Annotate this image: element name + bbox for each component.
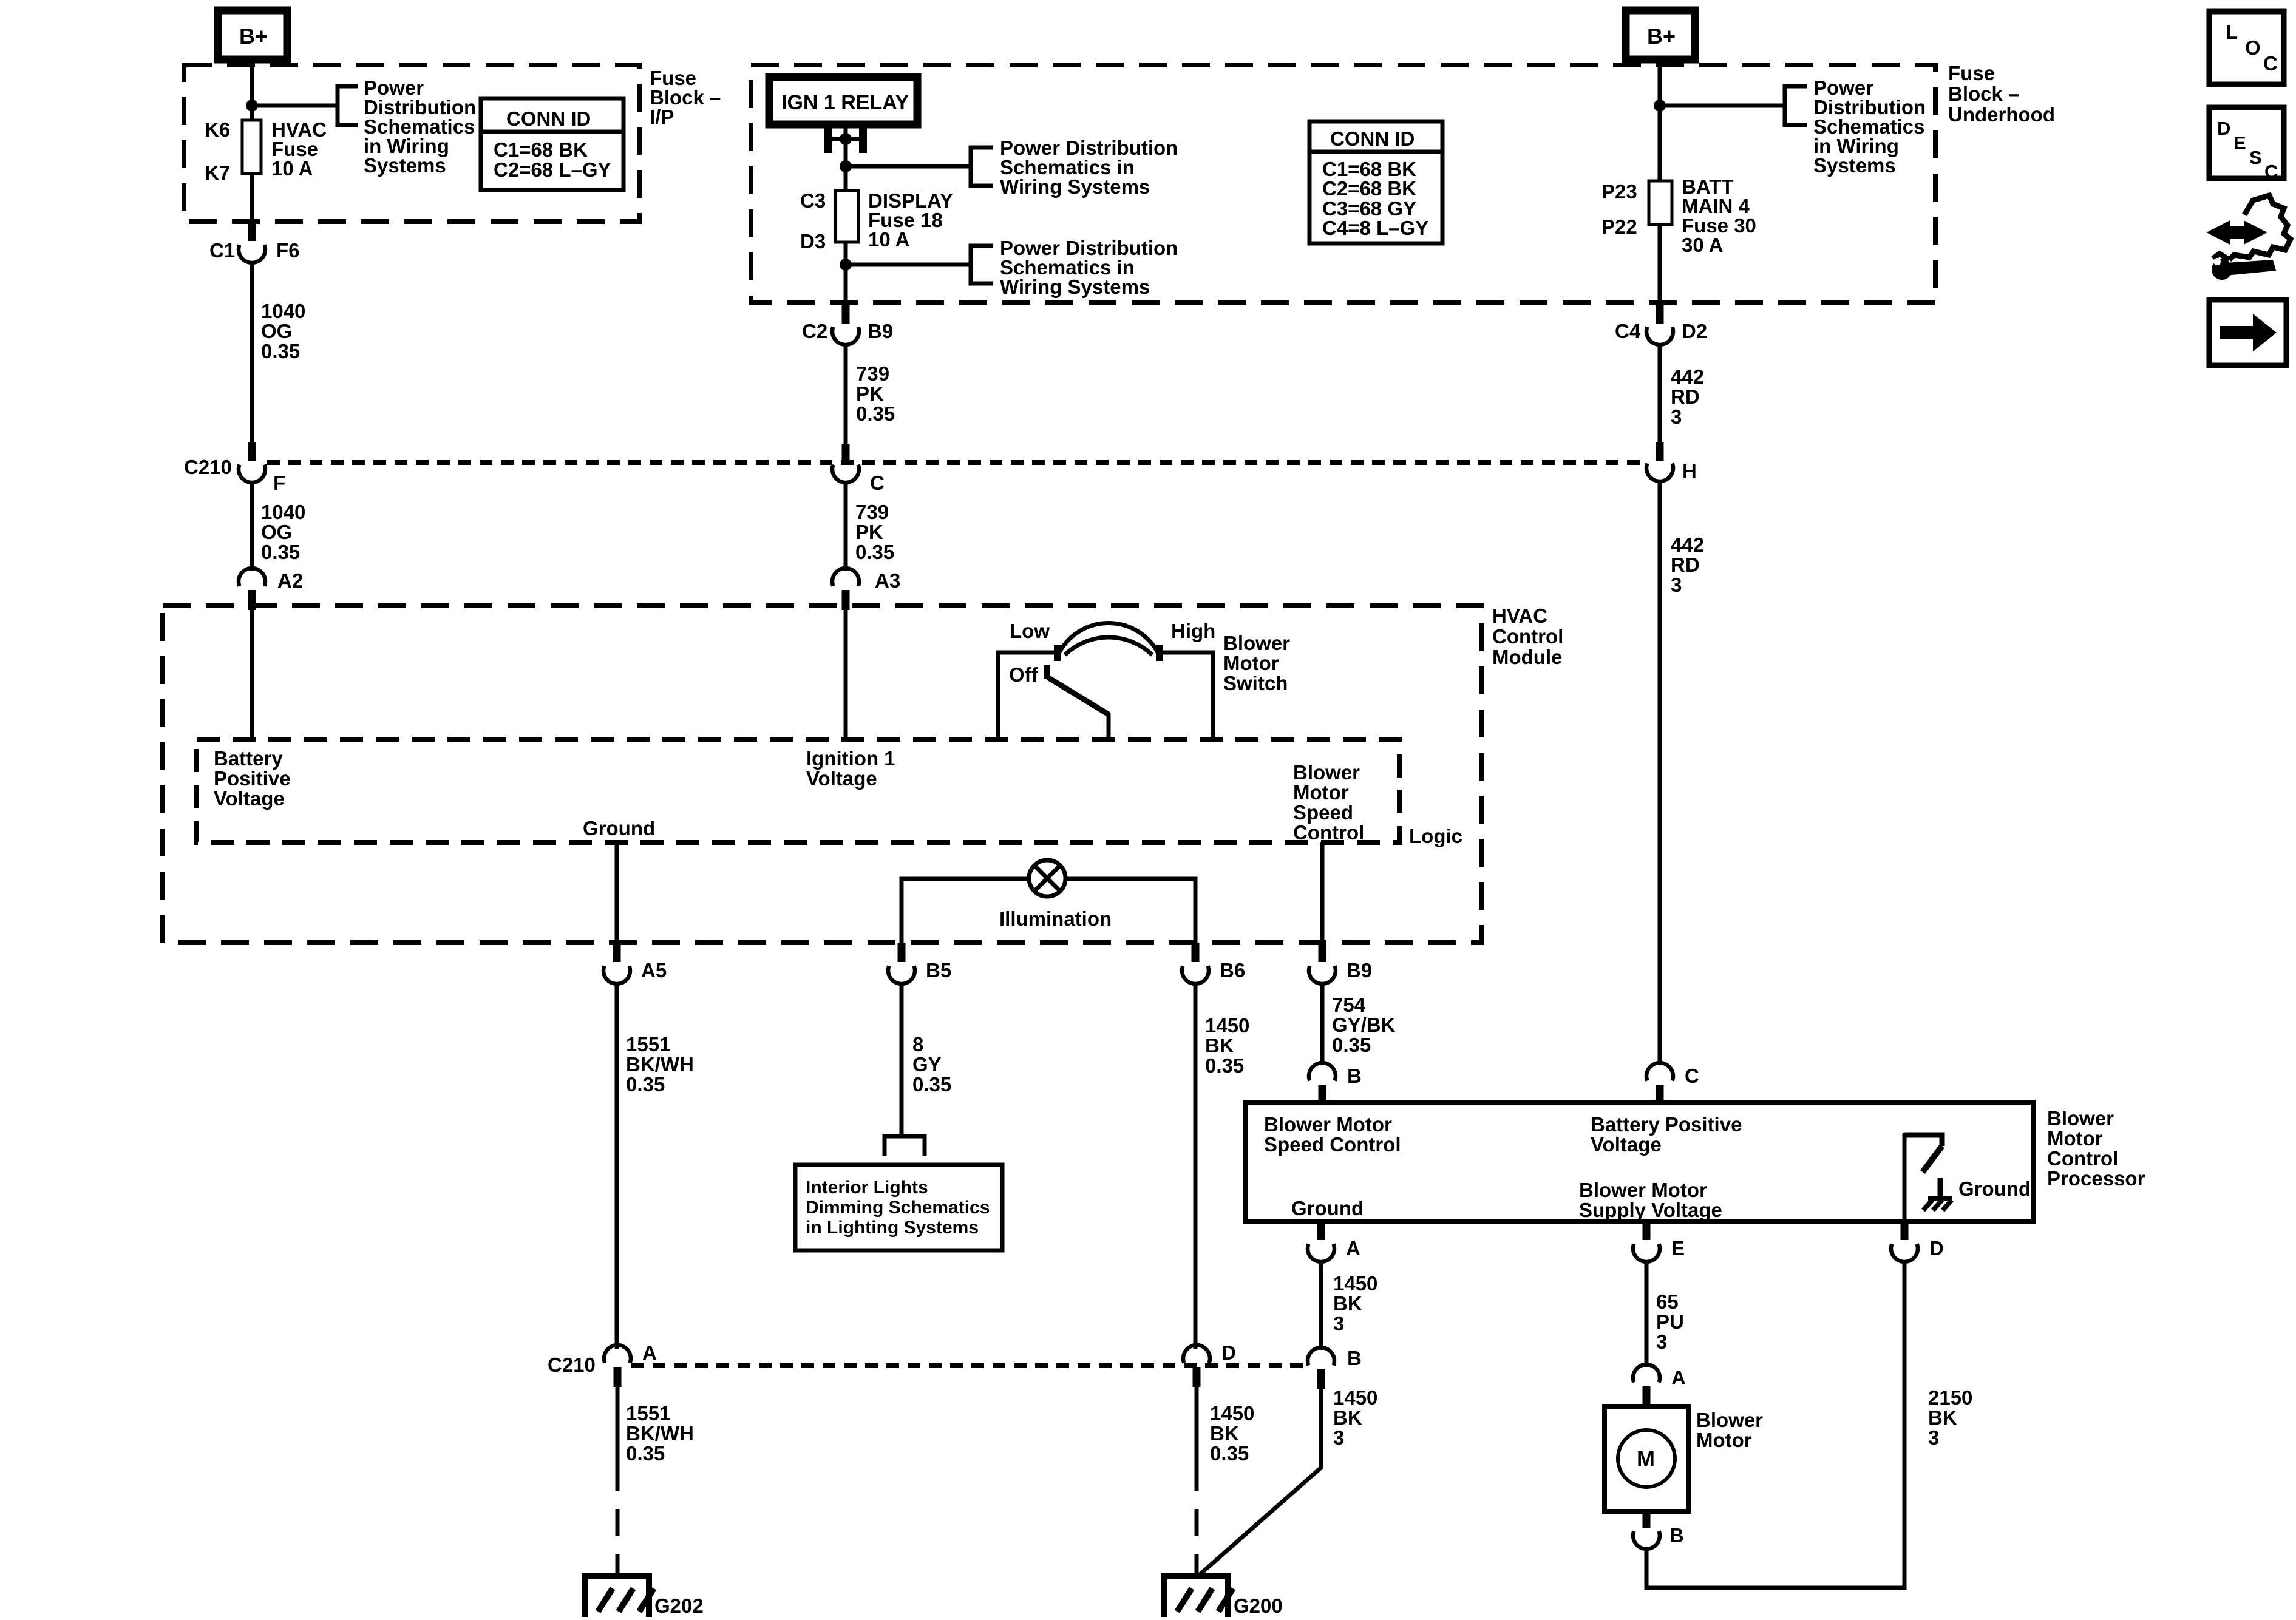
svg-text:BK: BK	[1333, 1292, 1362, 1315]
wire C210 C to A3 (739 PK)	[844, 483, 848, 571]
wire blower motor B to D pin (2150 BK 3)	[1646, 1260, 1904, 1588]
relay IGN 1 RELAY	[769, 77, 917, 124]
svg-text:Blower: Blower	[1223, 632, 1290, 654]
svg-text:Illumination: Illumination	[999, 907, 1112, 930]
note bracket (left fuse block)	[338, 86, 358, 125]
note box Interior Lights Dimming Schematics in Lighting Systems	[795, 1165, 1002, 1250]
svg-text:Control: Control	[1293, 821, 1364, 844]
svg-text:3: 3	[1928, 1426, 1939, 1449]
svg-text:Dimming Schematics: Dimming Schematics	[806, 1198, 990, 1218]
svg-text:442: 442	[1671, 534, 1704, 556]
wire pin A3 into module	[844, 610, 848, 739]
svg-text:1450: 1450	[1205, 1014, 1249, 1037]
svg-text:30 A: 30 A	[1682, 234, 1723, 256]
wire label 1040 OG 0.35 (lower)	[261, 501, 305, 563]
wire fuse to connector C1	[250, 174, 254, 223]
svg-text:D: D	[1221, 1341, 1236, 1364]
wire C210 D to G200 (dashed)	[1195, 1387, 1199, 1464]
wire B5 down (8 GY)	[900, 982, 904, 1135]
inline harness connector C210 dashed line (upper)	[267, 460, 1645, 465]
lamp illumination wire right	[1064, 879, 1195, 947]
svg-text:739: 739	[855, 501, 889, 523]
svg-text:F6: F6	[276, 239, 300, 262]
svg-text:C210: C210	[184, 456, 232, 478]
svg-text:Voltage: Voltage	[1591, 1133, 1662, 1156]
svg-text:G202: G202	[654, 1595, 704, 1617]
wire C4 to C210 H (442 RD)	[1658, 344, 1662, 445]
svg-text:B9: B9	[1347, 959, 1372, 981]
wire label 1040 OG 0.35 (upper)	[261, 300, 305, 362]
svg-text:65: 65	[1656, 1290, 1679, 1313]
svg-text:B6: B6	[1220, 959, 1245, 981]
svg-text:Speed: Speed	[1293, 801, 1353, 824]
svg-text:1450: 1450	[1333, 1272, 1377, 1295]
wire A pin to connector B (1450 BK 3)	[1319, 1260, 1323, 1350]
node junction below DISPLAY fuse	[840, 259, 852, 271]
note bracket (right fuse block)	[1785, 86, 1807, 125]
svg-text:S: S	[2249, 147, 2262, 168]
ground G200	[1164, 1576, 1283, 1617]
connector C4 D2	[1615, 305, 1707, 345]
connector pin B6	[1182, 943, 1245, 984]
svg-text:Logic: Logic	[1409, 825, 1462, 847]
svg-text:B: B	[1347, 1347, 1362, 1369]
svg-text:Ignition 1: Ignition 1	[806, 747, 895, 770]
svg-text:PK: PK	[855, 521, 883, 543]
svg-text:BK: BK	[1210, 1422, 1239, 1445]
connector C210 F	[184, 442, 285, 494]
svg-text:GY/BK: GY/BK	[1332, 1014, 1396, 1036]
svg-text:D: D	[1929, 1237, 1944, 1259]
wire label 1450 BK 0.35 (upper)	[1205, 1014, 1249, 1077]
svg-text:CONN ID: CONN ID	[1330, 127, 1415, 150]
module HVAC Control Module dashed box	[163, 606, 1481, 943]
svg-text:Wiring Systems: Wiring Systems	[1000, 175, 1150, 198]
svg-text:Fuse: Fuse	[1948, 62, 1995, 84]
lamp illumination wire left	[902, 879, 1030, 947]
svg-text:Motor: Motor	[1223, 652, 1279, 674]
connector pin B9	[1309, 943, 1372, 984]
svg-text:2150: 2150	[1928, 1386, 1972, 1409]
wire ground pin to A5	[615, 841, 619, 947]
svg-text:K7: K7	[205, 161, 230, 184]
svg-text:Module: Module	[1492, 646, 1562, 668]
svg-text:Ground: Ground	[583, 817, 655, 839]
svg-text:RD: RD	[1671, 554, 1700, 576]
svg-text:754: 754	[1332, 994, 1366, 1016]
connector pin A3	[832, 568, 900, 610]
fuse DISPLAY Fuse 18 10 A	[835, 191, 858, 242]
svg-text:0.35: 0.35	[1332, 1034, 1371, 1056]
inline harness connector C210 dashed line (lower)	[631, 1363, 1306, 1368]
svg-text:C210: C210	[548, 1354, 596, 1376]
svg-text:0.35: 0.35	[261, 340, 300, 362]
wire label 1551 BK/WH 0.35 (lower)	[626, 1402, 694, 1465]
svg-text:A: A	[1671, 1366, 1686, 1389]
svg-text:OG: OG	[261, 521, 292, 543]
wire C2 to C210 (739 PK)	[844, 344, 848, 445]
wire B9 down (754 GY/BK)	[1320, 982, 1325, 1065]
pin label Battery Positive Voltage (processor)	[1591, 1113, 1742, 1156]
wire junction to note bracket (lower middle)	[846, 263, 971, 267]
connector C210 A	[604, 1341, 657, 1387]
svg-text:BK/WH: BK/WH	[626, 1053, 694, 1076]
wire junction to note bracket (left)	[252, 104, 338, 108]
svg-text:C: C	[2264, 161, 2278, 182]
note bracket (lower middle)	[971, 246, 993, 283]
connector C2 B9	[802, 305, 893, 345]
svg-text:D: D	[2217, 118, 2230, 139]
svg-text:A2: A2	[277, 569, 303, 592]
svg-text:Processor: Processor	[2047, 1167, 2145, 1190]
wire label 739 PK 0.35 (upper)	[856, 362, 895, 425]
svg-text:0.35: 0.35	[626, 1442, 665, 1465]
svg-text:C1=68 BK: C1=68 BK	[494, 138, 588, 161]
svg-text:3: 3	[1333, 1426, 1344, 1449]
connector C210 C	[832, 444, 885, 494]
svg-text:B: B	[1347, 1065, 1362, 1087]
switch wiper	[1044, 665, 1109, 739]
svg-text:C4=8 L–GY: C4=8 L–GY	[1322, 217, 1428, 239]
svg-text:Low: Low	[1010, 620, 1050, 642]
wire C210 F to A2 (1040 OG)	[250, 483, 254, 571]
svg-text:Blower: Blower	[1696, 1409, 1763, 1431]
svg-text:Interior Lights: Interior Lights	[806, 1178, 928, 1198]
label Blower Motor Control Processor	[2047, 1107, 2145, 1190]
wire label 65 PU 3	[1656, 1290, 1684, 1353]
wire BATT fuse to C4	[1658, 225, 1662, 303]
svg-text:C2=68 L–GY: C2=68 L–GY	[494, 158, 611, 181]
fuse BATT MAIN 4 Fuse 30 30 A	[1649, 181, 1672, 225]
relay output terminal symbol	[824, 128, 867, 153]
svg-text:E: E	[2233, 132, 2246, 154]
value label HVAC Fuse 10 A	[271, 118, 327, 180]
svg-text:3: 3	[1671, 405, 1682, 428]
svg-text:0.35: 0.35	[856, 402, 895, 425]
svg-text:Speed Control: Speed Control	[1264, 1133, 1401, 1156]
wire B+ right down to BATT fuse	[1658, 59, 1662, 181]
svg-text:Switch: Switch	[1223, 672, 1288, 694]
connector C210 H	[1646, 442, 1697, 483]
wire label 1450 BK 3 (below B)	[1333, 1386, 1377, 1449]
connector pin C (processor top)	[1646, 1063, 1699, 1102]
ground G202	[585, 1576, 704, 1617]
label HVAC Control Module	[1492, 605, 1563, 668]
svg-text:C3: C3	[800, 189, 826, 212]
svg-text:Systems: Systems	[364, 154, 446, 177]
connector pin B5	[888, 943, 951, 984]
value label BATT MAIN 4 Fuse 30 30 A	[1682, 175, 1756, 256]
svg-text:C: C	[2263, 52, 2278, 75]
svg-text:M: M	[1637, 1446, 1655, 1471]
value label DISPLAY Fuse 18 10 A	[868, 189, 953, 251]
connector C210 D	[1183, 1341, 1236, 1387]
connector pin D (processor bottom)	[1891, 1221, 1944, 1262]
svg-text:C4: C4	[1615, 320, 1641, 342]
switch frame right	[1161, 652, 1213, 739]
switch blower motor switch frame left	[998, 652, 1056, 739]
svg-text:CONN ID: CONN ID	[506, 107, 591, 130]
note text Power Distribution Schematics in Wiring Systems (upper middle)	[1000, 137, 1178, 198]
svg-text:1551: 1551	[626, 1402, 670, 1425]
note bracket to interior lights box	[885, 1136, 925, 1156]
connector pin E (processor bottom)	[1633, 1221, 1685, 1262]
svg-text:Battery Positive: Battery Positive	[1591, 1113, 1742, 1136]
svg-text:8: 8	[912, 1033, 923, 1056]
svg-text:HVAC: HVAC	[1492, 605, 1547, 627]
internal ground symbol (processor)	[1904, 1133, 2031, 1221]
wire label 442 RD 3 (lower)	[1671, 534, 1704, 596]
node junction at right B+ feed	[1654, 100, 1666, 112]
pin label Blower Motor Speed Control (processor)	[1264, 1113, 1401, 1156]
note text Power Distribution Schematics in Wiring Systems (right)	[1813, 76, 1926, 177]
svg-text:RD: RD	[1671, 385, 1700, 408]
svg-text:P22: P22	[1601, 215, 1637, 238]
icon schematic navigation (arrows and wrench)	[2210, 195, 2291, 280]
svg-text:0.35: 0.35	[1205, 1054, 1244, 1077]
svg-text:3: 3	[1333, 1312, 1344, 1335]
icon DESC box	[2209, 107, 2284, 182]
svg-text:Blower Motor: Blower Motor	[1579, 1179, 1707, 1201]
svg-text:1551: 1551	[626, 1033, 670, 1056]
wire C1 to C210 (1040 OG)	[250, 261, 254, 445]
svg-text:L: L	[2226, 21, 2238, 43]
svg-text:A: A	[1346, 1237, 1360, 1259]
svg-text:0.35: 0.35	[855, 541, 894, 563]
svg-text:BK: BK	[1205, 1034, 1234, 1057]
svg-text:Voltage: Voltage	[806, 767, 877, 790]
svg-text:Control: Control	[1492, 625, 1563, 648]
wire label 1450 BK 3 (A pin)	[1333, 1272, 1377, 1335]
label Blower Motor	[1696, 1409, 1763, 1451]
svg-text:Blower Motor: Blower Motor	[1264, 1113, 1392, 1136]
svg-text:PU: PU	[1656, 1310, 1684, 1333]
svg-text:B+: B+	[1647, 24, 1676, 49]
svg-text:F: F	[273, 472, 285, 494]
svg-text:Wiring Systems: Wiring Systems	[1000, 276, 1150, 298]
fuse block underhood dashed box	[751, 65, 1935, 303]
svg-text:Ground: Ground	[1291, 1197, 1364, 1219]
svg-text:1040: 1040	[261, 501, 305, 523]
icon LOC box	[2209, 12, 2284, 84]
svg-text:Control: Control	[2047, 1147, 2118, 1170]
switch rotary arc	[1058, 623, 1160, 656]
svg-text:Battery: Battery	[214, 747, 283, 770]
svg-text:Block –: Block –	[1948, 83, 2019, 105]
svg-text:G200: G200	[1234, 1595, 1283, 1617]
svg-text:PK: PK	[856, 382, 884, 405]
svg-text:0.35: 0.35	[626, 1073, 665, 1096]
wire C210 H down to processor pin C (442 RD)	[1658, 481, 1662, 1065]
wire junction to note bracket (right)	[1660, 104, 1785, 108]
connector pin B (blower motor)	[1633, 1511, 1684, 1549]
svg-text:C1: C1	[209, 239, 235, 262]
svg-text:BK: BK	[1333, 1406, 1362, 1429]
wire label 2150 BK 3	[1928, 1386, 1972, 1449]
fuse HVAC Fuse 10 A	[242, 120, 261, 174]
svg-text:10 A: 10 A	[868, 228, 909, 251]
svg-text:442: 442	[1671, 365, 1704, 388]
connector pin B (processor top)	[1309, 1063, 1362, 1102]
note bracket (upper middle)	[971, 147, 993, 186]
lamp illumination	[1029, 860, 1065, 896]
pin label Blower Motor Supply Voltage (processor)	[1579, 1179, 1722, 1221]
connector pin A (blower motor)	[1633, 1364, 1686, 1406]
wire pin A2 into module	[250, 610, 254, 739]
node junction at left B+ feed	[246, 100, 258, 112]
connector pin A5	[603, 943, 667, 984]
svg-text:O: O	[2245, 36, 2261, 59]
svg-text:E: E	[1671, 1237, 1685, 1259]
svg-text:Ground: Ground	[1958, 1178, 2031, 1200]
svg-text:H: H	[1682, 460, 1697, 483]
svg-text:10 A: 10 A	[271, 157, 313, 180]
pin label Ignition 1 Voltage	[806, 747, 895, 790]
wire label 754 GY/BK 0.35	[1332, 994, 1396, 1056]
svg-text:739: 739	[856, 362, 889, 385]
pin label Battery Positive Voltage	[214, 747, 291, 810]
svg-text:BK: BK	[1928, 1406, 1957, 1429]
svg-text:Underhood: Underhood	[1948, 103, 2055, 126]
svg-text:Blower: Blower	[2047, 1107, 2114, 1130]
switch arc end caps	[1054, 645, 1061, 661]
svg-text:I/P: I/P	[650, 106, 674, 128]
note text Power Distribution Schematics in Wiring Systems (lower middle)	[1000, 237, 1178, 298]
note text: Power Distribution Schematics in Wiring Systems (left)	[364, 76, 476, 177]
wire junction to note bracket (upper middle)	[846, 164, 971, 169]
svg-text:BK/WH: BK/WH	[626, 1422, 694, 1445]
svg-text:A3: A3	[875, 569, 900, 592]
wire label 1450 BK 0.35 (lower)	[1210, 1402, 1254, 1465]
svg-text:B5: B5	[926, 959, 951, 981]
svg-text:B9: B9	[868, 320, 893, 342]
table CONN ID (underhood fuse block)	[1309, 121, 1442, 243]
svg-text:Systems: Systems	[1813, 154, 1896, 177]
svg-text:Supply Voltage: Supply Voltage	[1579, 1199, 1722, 1221]
wire speed control pin to B9	[1320, 842, 1325, 947]
svg-text:C: C	[870, 472, 885, 494]
wire B6 down (1450 BK)	[1194, 982, 1198, 1349]
svg-text:0.35: 0.35	[261, 541, 300, 563]
wire label 739 PK 0.35 (lower)	[855, 501, 894, 563]
connector pin A (processor bottom)	[1308, 1221, 1360, 1262]
label Fuse Block - Underhood	[1948, 62, 2055, 126]
svg-text:IGN 1 RELAY: IGN 1 RELAY	[781, 91, 909, 114]
svg-text:OG: OG	[261, 320, 292, 342]
wire DISPLAY fuse down	[844, 242, 848, 303]
svg-text:Positive: Positive	[214, 767, 291, 790]
power symbol B+ (right)	[1626, 10, 1695, 59]
svg-text:Off: Off	[1009, 663, 1039, 686]
module Blower Motor Control Processor box	[1246, 1102, 2033, 1221]
connector pin A2	[239, 568, 303, 610]
table CONN ID (I/P fuse block)	[481, 98, 623, 190]
svg-text:K6: K6	[205, 118, 230, 141]
label Fuse Block - I/P	[650, 67, 721, 128]
svg-text:B+: B+	[239, 24, 268, 49]
svg-text:Motor: Motor	[1293, 781, 1349, 804]
svg-text:D3: D3	[800, 230, 826, 252]
svg-text:C: C	[1685, 1065, 1699, 1087]
svg-text:C2: C2	[802, 320, 827, 342]
svg-text:0.35: 0.35	[1210, 1442, 1249, 1465]
wire label 442 RD 3 (upper)	[1671, 365, 1704, 428]
wire label 8 GY 0.35	[912, 1033, 951, 1096]
svg-text:Blower: Blower	[1293, 761, 1360, 784]
svg-text:High: High	[1171, 620, 1215, 642]
connector C1 F6	[209, 223, 300, 263]
svg-text:1450: 1450	[1210, 1402, 1254, 1425]
wire label 1551 BK/WH 0.35 (upper)	[626, 1033, 694, 1096]
motor blower motor	[1605, 1406, 1688, 1511]
pin label Blower Motor Speed Control	[1293, 761, 1364, 844]
svg-text:3: 3	[1671, 574, 1682, 596]
svg-text:D2: D2	[1682, 320, 1707, 342]
svg-text:1040: 1040	[261, 300, 305, 322]
svg-text:GY: GY	[912, 1053, 942, 1076]
svg-text:A: A	[642, 1341, 657, 1364]
svg-text:P23: P23	[1601, 180, 1637, 203]
wire E pin to blower motor (65 PU 3)	[1645, 1260, 1649, 1367]
wire B connector to G200	[1198, 1389, 1321, 1576]
power symbol B+ (left)	[218, 10, 287, 59]
fuse block I/P dashed box	[184, 65, 639, 222]
connector B (blower motor resistor harness)	[1308, 1347, 1362, 1389]
svg-text:1450: 1450	[1333, 1386, 1377, 1409]
svg-text:Motor: Motor	[1696, 1429, 1752, 1451]
svg-text:C2=68 BK: C2=68 BK	[1322, 177, 1416, 200]
wire A5 down (1551 BK/WH)	[615, 982, 619, 1349]
svg-text:in Lighting Systems: in Lighting Systems	[806, 1218, 979, 1238]
svg-text:0.35: 0.35	[912, 1073, 951, 1096]
svg-text:A5: A5	[641, 959, 667, 981]
svg-text:3: 3	[1656, 1330, 1667, 1353]
wire B+ left down to HVAC fuse	[250, 59, 254, 120]
svg-text:Motor: Motor	[2047, 1127, 2103, 1150]
label Blower Motor Switch	[1223, 632, 1290, 694]
node junction above DISPLAY fuse	[840, 160, 852, 172]
svg-text:Voltage: Voltage	[214, 787, 285, 810]
svg-text:B: B	[1669, 1524, 1684, 1547]
wire relay output	[844, 124, 848, 191]
icon forward arrow box	[2209, 300, 2286, 365]
logic dashed box	[197, 739, 1399, 842]
wire C210 A to G202	[616, 1387, 620, 1576]
